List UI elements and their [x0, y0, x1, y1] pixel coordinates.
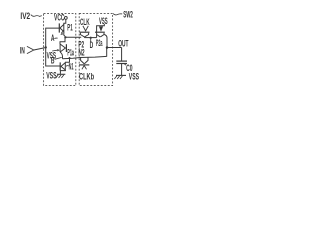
wire OUT down to capacitor — [121, 48, 123, 62]
wire P2a drain to OUT node — [104, 35, 107, 48]
svg-text:IN: IN — [20, 45, 25, 55]
transistor P2 gate bar — [80, 31, 90, 33]
wire capacitor to ground — [121, 64, 123, 76]
svg-text:OUT: OUT — [118, 39, 129, 49]
capacitor C0 top plate — [116, 60, 127, 62]
node B junction dot — [69, 57, 71, 59]
svg-text:VSS: VSS — [129, 71, 139, 81]
label N1 leader tilde — [66, 65, 69, 66]
capacitor C0 bottom plate — [116, 63, 127, 65]
wire node B to N2 — [63, 56, 107, 58]
wire P1 drain to node A — [64, 32, 65, 37]
svg-text:A: A — [51, 33, 55, 43]
wire IN to N1 gate — [46, 47, 60, 66]
block SW2 dashed box — [79, 13, 112, 85]
svg-text:N1: N1 — [69, 61, 74, 71]
ground symbol right — [116, 74, 126, 76]
wire P1a source to node B — [60, 52, 62, 59]
arrow VSS to P2a gate — [99, 26, 103, 31]
label A leader — [54, 37, 57, 40]
wire CLK arrow — [83, 26, 88, 31]
transistor N1 triangle — [61, 63, 65, 70]
svg-text:P1: P1 — [67, 22, 72, 32]
arrow VSS to P1a — [52, 49, 57, 52]
transistor P1a gate bar — [65, 44, 67, 52]
svg-text:VCC: VCC — [54, 13, 65, 23]
wire N1 source to ground — [60, 70, 65, 74]
svg-text:N2: N2 — [78, 48, 84, 58]
transistor N2 body — [81, 58, 88, 64]
transistor P2a body — [97, 33, 104, 37]
node IN junction dot — [45, 46, 47, 48]
transistor N1 gate bar — [59, 62, 61, 70]
wire node A to P2 — [65, 36, 81, 38]
transistor P1 arrow — [61, 30, 64, 33]
node OUT junction dot — [106, 46, 109, 49]
label SW2 leader — [113, 14, 122, 15]
svg-text:VSS: VSS — [46, 70, 56, 80]
svg-text:VSS: VSS — [99, 16, 108, 26]
transistor N2 gate bar — [79, 64, 89, 66]
svg-text:CLK: CLK — [80, 17, 90, 27]
transistor P1 gate bar — [58, 23, 60, 32]
transistor P1 triangle — [60, 24, 64, 31]
terminal IN — [27, 46, 34, 53]
svg-text:P2a: P2a — [96, 38, 103, 48]
terminal VCC circle — [64, 17, 67, 20]
wire OUT — [107, 47, 122, 49]
svg-text:P1a: P1a — [67, 48, 74, 58]
label B tick — [55, 57, 62, 59]
svg-text:IV2: IV2 — [20, 11, 30, 21]
wire P2 to P2a connector — [85, 37, 97, 39]
transistor P2a gate bar — [95, 31, 105, 33]
node A junction dot — [64, 36, 66, 38]
svg-text:D: D — [90, 40, 94, 50]
wire B to N1 drain — [65, 58, 69, 62]
block IV2 dashed box — [44, 13, 76, 85]
wire IN to box — [34, 48, 45, 50]
svg-text:B: B — [51, 55, 55, 65]
wire VCC to P1 — [64, 19, 66, 24]
ground symbol left — [57, 73, 65, 75]
transistor P2 body — [80, 33, 88, 38]
label C0 tick — [124, 64, 126, 65]
wire VSS to P2a — [97, 24, 105, 38]
wire CLKb arrow — [82, 66, 87, 70]
transistor P1a triangle — [60, 44, 65, 52]
label D tick — [90, 39, 92, 42]
svg-text:CLKb: CLKb — [79, 71, 94, 81]
wire N2 drain riser — [106, 48, 108, 57]
svg-text:SW2: SW2 — [123, 9, 133, 19]
wire node A down to P1a — [60, 38, 65, 44]
label IV2 leader — [31, 15, 42, 17]
wire IN to P1 gate — [46, 28, 60, 47]
node D junction dot — [90, 37, 92, 39]
